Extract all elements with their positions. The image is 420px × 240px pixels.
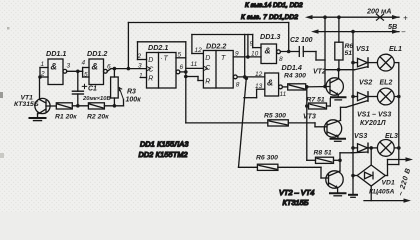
node: R7 tap on L1 <box>305 104 309 108</box>
wire: riser down to R5 line <box>185 77 187 123</box>
resistor R3 (variable) <box>111 69 142 106</box>
svg-text:DD1.3: DD1.3 <box>260 32 280 41</box>
svg-text:&: & <box>265 46 271 56</box>
svg-text:6: 6 <box>180 64 184 71</box>
svg-text:100к: 100к <box>126 97 142 104</box>
wire: DD2.1 feedback loop <box>137 42 186 80</box>
ground (anode bus bottom) <box>349 195 357 198</box>
svg-text:&: & <box>267 78 273 88</box>
wire R1-R2 <box>72 105 88 107</box>
wire R2 to R3 bottom <box>104 105 123 107</box>
svg-text:VS1: VS1 <box>356 46 369 53</box>
svg-text:КТ315Б: КТ315Б <box>283 198 309 207</box>
wire: bus below bridge <box>352 176 354 195</box>
wire: gate node horizontal to VS1 <box>325 69 355 71</box>
wire: riser from +5 rail to VT2 base line <box>324 17 326 86</box>
svg-text:VT2: VT2 <box>313 69 326 76</box>
resistor R1 <box>55 103 77 121</box>
svg-text:R: R <box>148 76 153 83</box>
wire: L1 riser (R4 node down to R8) <box>307 87 316 161</box>
svg-text:200 мА: 200 мА <box>366 7 392 16</box>
flip-flop DD2.2 <box>203 42 233 89</box>
svg-text:9: 9 <box>235 51 239 58</box>
wire: anode bus <box>352 32 354 179</box>
wire: DD2.2 R stub <box>198 80 203 82</box>
wire: long top feedback line to C2 node <box>128 23 288 69</box>
svg-text:VT3: VT3 <box>303 114 316 121</box>
svg-text:R7 51: R7 51 <box>307 97 325 104</box>
svg-text:R2 20к: R2 20к <box>87 114 109 121</box>
svg-text:К выв.14 DD1, DD2: К выв.14 DD1, DD2 <box>245 2 303 9</box>
svg-text:VS1 – VS3: VS1 – VS3 <box>357 112 391 119</box>
node: R3 bottom junction <box>113 104 117 108</box>
node: EL2 bus tap <box>397 95 401 99</box>
svg-text:−: − <box>401 28 406 37</box>
gate DD1.4 <box>255 63 302 98</box>
thyristor VS1 <box>353 46 377 67</box>
svg-text:11: 11 <box>280 91 287 98</box>
svg-text:R4 300: R4 300 <box>284 73 306 80</box>
svg-text:VT2 – VT4: VT2 – VT4 <box>279 188 314 197</box>
svg-text:C1: C1 <box>88 86 97 93</box>
node: R line tap <box>184 75 188 79</box>
node: L1 riser top <box>305 85 309 89</box>
svg-text:20мк×10В: 20мк×10В <box>82 96 111 102</box>
wire: DD2.1 pin5 out <box>176 52 186 59</box>
svg-text:R6 300: R6 300 <box>256 155 278 162</box>
label: VS1-VS3 type <box>357 112 391 128</box>
svg-text:3: 3 <box>138 63 142 70</box>
svg-text:R6: R6 <box>345 43 354 50</box>
node: rail1 R6-51 tap <box>337 15 341 19</box>
wire: mains line 1 (upper arrow) <box>385 157 413 175</box>
wire DD1.3 out to C2 <box>280 51 299 53</box>
transistor VT1 <box>14 77 56 118</box>
svg-text:VD1: VD1 <box>382 180 395 187</box>
node: feedback riser tap on pin8 <box>243 75 247 79</box>
wire: DD1.4 pin13 branch <box>244 89 265 98</box>
svg-text:DD1.2: DD1.2 <box>87 49 107 58</box>
svg-text:1: 1 <box>41 61 45 68</box>
wire: to DD2.2 C input <box>186 61 204 68</box>
svg-text:DD1.4: DD1.4 <box>282 63 302 72</box>
power rail 0V <box>311 28 406 37</box>
svg-text:DD1 К155ЛА3: DD1 К155ЛА3 <box>140 140 189 149</box>
capacitor C1 <box>72 71 110 106</box>
flip-flop DD2.1 <box>147 43 177 88</box>
thyristor VS3 <box>353 133 377 153</box>
svg-text:R: R <box>205 79 210 86</box>
diode bridge VD1 <box>353 148 395 195</box>
wire DD1.2 out to DD2.1 C input <box>107 69 146 72</box>
svg-text:К выв. 7 DD1,DD2: К выв. 7 DD1,DD2 <box>241 14 298 21</box>
svg-text:C2 100: C2 100 <box>290 37 313 44</box>
svg-text:КТ315Б: КТ315Б <box>14 101 39 108</box>
svg-text:11: 11 <box>191 61 198 68</box>
svg-text:DD2.1: DD2.1 <box>148 43 168 52</box>
svg-text:·: · <box>161 56 163 63</box>
svg-text:R5 300: R5 300 <box>264 113 286 120</box>
wire: mains line 2 (lower arrow) <box>364 186 411 203</box>
node: R3 top tap <box>113 67 117 71</box>
resistor R4 <box>282 73 306 91</box>
svg-text:R1 20к: R1 20к <box>55 114 77 121</box>
transistor VT3 <box>303 107 342 138</box>
wire: C2 to VS1 gate node <box>316 52 325 61</box>
svg-text:&: & <box>51 62 58 72</box>
thyristor VS2 <box>353 80 377 102</box>
svg-text:12: 12 <box>255 71 263 78</box>
label: VT2-VT4 type <box>279 188 314 207</box>
resistor R5 300 <box>186 113 288 127</box>
svg-text:1: 1 <box>139 73 143 80</box>
scan speck top left <box>7 27 10 30</box>
svg-text:R8 51: R8 51 <box>314 150 332 157</box>
ground (VT1 emitter) <box>30 118 46 121</box>
node: rail1 riser tap <box>323 15 327 19</box>
node: VS1 anode tap <box>351 61 355 65</box>
node: top long line tap <box>127 67 131 71</box>
svg-text:51: 51 <box>345 50 353 57</box>
svg-text:D: D <box>148 57 153 64</box>
power rail +5V <box>305 7 408 32</box>
svg-text:4: 4 <box>82 60 86 67</box>
node: +5 riser bottom on base line <box>323 85 327 89</box>
wire: R5 to VT3 base <box>288 123 327 127</box>
node: long line to C2 junction <box>287 50 291 54</box>
svg-text:R3: R3 <box>127 89 136 96</box>
svg-text:VS2: VS2 <box>359 80 372 87</box>
svg-text:5: 5 <box>178 52 182 59</box>
scan speck left edge <box>0 92 3 98</box>
svg-text:5: 5 <box>84 72 88 79</box>
svg-text:10: 10 <box>251 51 259 58</box>
svg-text:VS3: VS3 <box>354 133 367 140</box>
gate DD1.2 <box>82 49 112 85</box>
svg-text:8: 8 <box>279 56 283 63</box>
capacitor C2 <box>290 37 316 56</box>
transistor VT2 <box>313 69 343 97</box>
wire: R4 to VT2 base <box>306 86 330 88</box>
svg-text:13: 13 <box>255 83 263 90</box>
node: R8 to VT4 collector riser <box>338 159 342 163</box>
lamp EL1 <box>377 46 402 71</box>
ground (VT4 emitter) <box>330 193 346 196</box>
gate DD1.1 <box>40 49 71 85</box>
node: DD1.1 input tie / junction <box>38 75 42 79</box>
node: riser on pin9 wire <box>246 55 250 59</box>
node: VT2 collector / VS1 gate node <box>337 68 341 72</box>
svg-text:9: 9 <box>250 41 254 48</box>
wire: VT4 collector to VS3 gate <box>340 151 368 154</box>
ground (VT2 emitter) <box>331 97 346 100</box>
wire: DD2.2 pin9 out to DD1.3 pin10 <box>233 51 261 58</box>
node: C1 bottom junction <box>76 104 80 108</box>
scan speck bottom left <box>0 153 4 158</box>
svg-text:DD2.2: DD2.2 <box>206 42 226 51</box>
wire: DD2.2 feedback loop (pin8 to pin12) <box>192 35 253 77</box>
node: bus to bridge left <box>351 174 355 178</box>
node: EL3 bus tap <box>397 146 401 150</box>
wire: VT3 collector to VS2 gate <box>341 101 368 108</box>
node: rail2 anode bus tap <box>351 30 355 34</box>
ground (VT3 emitter) <box>331 139 346 142</box>
svg-text:12: 12 <box>195 47 203 54</box>
svg-text:DD1.1: DD1.1 <box>46 49 66 58</box>
resistor R6 300 <box>239 78 279 170</box>
wire: to DD2.2 R input <box>186 77 198 81</box>
node: VS2 anode tap <box>351 95 355 99</box>
svg-text:2: 2 <box>137 53 142 60</box>
wire: lamp bus <box>388 63 399 165</box>
lamp EL3 <box>377 133 398 156</box>
node: R6 riser tap on pin8 <box>245 77 249 81</box>
svg-text:EL2: EL2 <box>380 80 393 87</box>
node: VS3 anode tap <box>351 146 355 150</box>
wire: DD2.2 pin8 out to DD1.4 pin 12 <box>233 75 264 89</box>
svg-text:8: 8 <box>236 82 240 89</box>
svg-text:3: 3 <box>67 63 71 70</box>
svg-text:T: T <box>221 55 226 62</box>
wire: DD2.2 Q->D riser <box>247 35 249 57</box>
svg-text:EL3: EL3 <box>385 133 398 140</box>
svg-text:EL1: EL1 <box>389 46 402 53</box>
node: bridge top tap <box>369 146 373 150</box>
wire: DD2.1 R stub <box>141 77 147 79</box>
svg-text:D: D <box>205 55 210 62</box>
resistor R6 51 (vertical) <box>335 17 354 69</box>
wire: VS1 gate diagonal <box>355 67 368 70</box>
svg-text:&: & <box>92 62 99 72</box>
wire: R6 to VT4 base <box>278 167 329 178</box>
resistor R2 <box>87 103 109 121</box>
wire: DD2.1 pin6 out <box>176 64 186 74</box>
resistor R8 51 <box>314 150 341 164</box>
gate DD1.3 <box>260 32 283 64</box>
wire: top line right drop to DD1.3 pin9 <box>250 35 262 48</box>
transistor VT4 <box>326 153 343 193</box>
node: C1 tap on gate wire <box>76 70 80 74</box>
node: pin6 tap <box>184 70 188 74</box>
wire DD1.1 out to DD1.2 in <box>67 68 89 78</box>
svg-text:КЦ405А: КЦ405А <box>369 188 394 195</box>
svg-text:+: + <box>403 14 408 23</box>
svg-text:DD2 К155ТМ2: DD2 К155ТМ2 <box>139 150 188 159</box>
svg-text:T: T <box>164 56 169 63</box>
resistor R7 51 <box>307 97 331 110</box>
lamp EL2 <box>377 80 398 105</box>
svg-text:КУ201Л: КУ201Л <box>360 120 386 127</box>
